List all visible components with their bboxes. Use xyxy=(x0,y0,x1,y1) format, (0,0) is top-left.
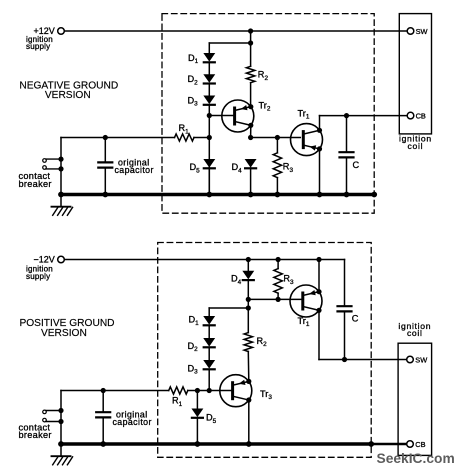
svg-text:D3: D3 xyxy=(188,95,199,107)
svg-text:SeekIC.com: SeekIC.com xyxy=(377,451,455,466)
svg-text:Tr3: Tr3 xyxy=(260,389,272,401)
svg-text:capacitor: capacitor xyxy=(115,165,154,175)
svg-text:VERSION: VERSION xyxy=(45,90,91,101)
svg-text:R1: R1 xyxy=(172,396,183,408)
svg-text:R3: R3 xyxy=(283,274,294,286)
svg-text:D5: D5 xyxy=(190,162,201,174)
svg-text:D1: D1 xyxy=(188,53,199,65)
svg-text:D2: D2 xyxy=(188,74,199,86)
svg-text:D3: D3 xyxy=(188,363,199,375)
svg-text:D4: D4 xyxy=(232,162,243,174)
svg-text:CB: CB xyxy=(415,440,425,449)
svg-text:SW: SW xyxy=(416,27,428,36)
svg-text:supply: supply xyxy=(26,42,50,51)
svg-text:D5: D5 xyxy=(206,413,217,425)
svg-text:SW: SW xyxy=(415,355,427,364)
svg-text:D1: D1 xyxy=(189,315,200,327)
svg-text:VERSION: VERSION xyxy=(41,328,87,339)
svg-text:coil: coil xyxy=(408,141,424,151)
svg-text:Tr1: Tr1 xyxy=(298,108,310,120)
svg-text:R2: R2 xyxy=(257,336,268,348)
svg-text:supply: supply xyxy=(26,272,50,281)
svg-text:CB: CB xyxy=(416,111,426,120)
svg-text:D4: D4 xyxy=(231,274,242,286)
svg-text:coil: coil xyxy=(407,328,423,338)
svg-text:R3: R3 xyxy=(283,162,294,174)
svg-text:−12V: −12V xyxy=(34,254,55,264)
svg-text:breaker: breaker xyxy=(19,179,52,189)
svg-text:D2: D2 xyxy=(188,341,199,353)
svg-text:R2: R2 xyxy=(258,70,269,82)
svg-text:breaker: breaker xyxy=(19,430,52,440)
svg-text:C: C xyxy=(352,314,359,324)
svg-text:Tr2: Tr2 xyxy=(259,100,271,112)
svg-text:capacitor: capacitor xyxy=(113,417,152,427)
svg-text:C: C xyxy=(353,160,360,170)
svg-text:R1: R1 xyxy=(179,123,190,135)
